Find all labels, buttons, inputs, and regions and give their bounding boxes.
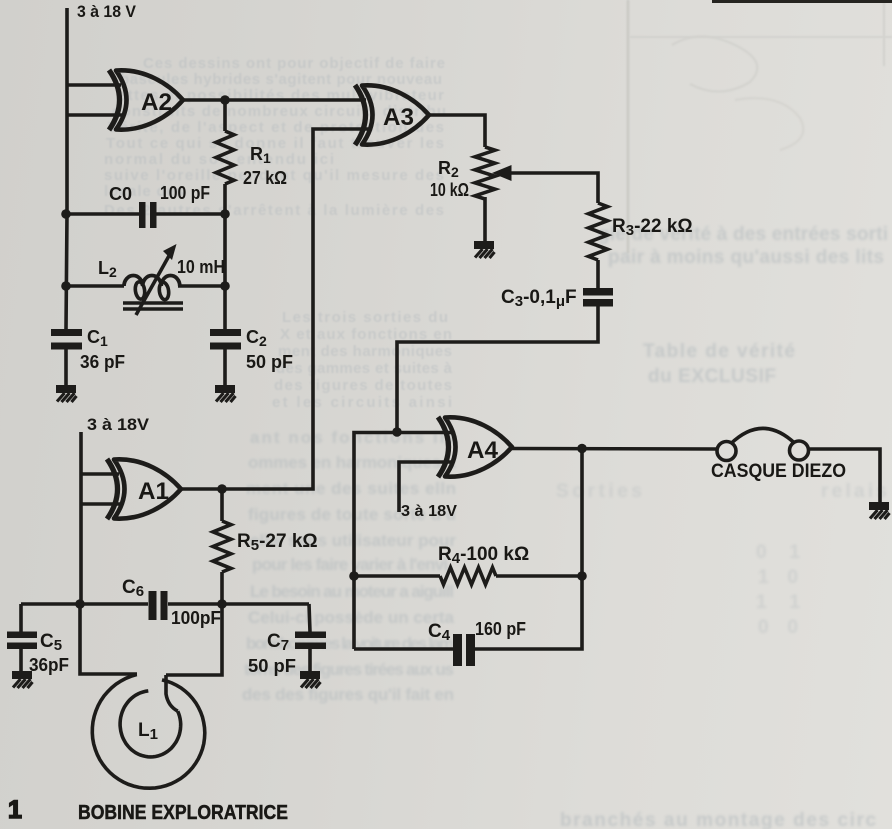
R2 wiper arrow [508, 173, 598, 203]
svg-text:Celui-ci possède un certa: Celui-ci possède un certa [248, 608, 455, 627]
wire A2 lower input stub [67, 113, 123, 117]
svg-text:R5-27 kΩ: R5-27 kΩ [237, 531, 318, 554]
xor gate A2 [109, 70, 183, 130]
capacitor C5 [7, 632, 37, 650]
svg-text:1 1: 1 1 [756, 592, 800, 613]
svg-text:C2: C2 [246, 327, 267, 349]
svg-text:CASQUE DIEZO: CASQUE DIEZO [711, 461, 846, 482]
wire A3 lower input from A1 output [181, 129, 369, 489]
svg-text:100pF: 100pF [171, 608, 221, 628]
wire R5 bottom lead [220, 572, 224, 604]
node R4 left junction [349, 571, 359, 581]
wire left supply rail [66, 8, 67, 329]
svg-text:R4-100 kΩ: R4-100 kΩ [438, 544, 529, 567]
node C0 left junction [61, 209, 71, 219]
piezo headset CASQUE DIEZO [717, 428, 809, 460]
wire A1 lower input stub [81, 502, 121, 506]
capacitor C2 [210, 329, 241, 350]
ground under C7 [300, 671, 321, 688]
node C6 left junction [75, 599, 85, 609]
svg-text:A2: A2 [141, 89, 172, 116]
node A4 upper input junction [392, 427, 402, 437]
node C6 right junction [217, 599, 227, 609]
node R4 right junction [577, 571, 587, 581]
svg-text:C6: C6 [122, 577, 144, 600]
svg-text:A3: A3 [383, 104, 414, 131]
capacitor C0 [139, 202, 157, 228]
node C0 right junction [220, 209, 230, 219]
capacitor C3 [583, 288, 613, 307]
svg-text:1 0: 1 0 [758, 567, 798, 588]
ground under C2 [215, 385, 236, 402]
svg-text:10 mH: 10 mH [177, 257, 225, 277]
svg-text:Ces dessins ont pour objectif: Ces dessins ont pour objectif de faire [143, 55, 445, 72]
svg-text:R2: R2 [438, 158, 459, 180]
svg-text:L2: L2 [98, 258, 117, 280]
wire C7 branch [309, 604, 310, 671]
ground right [869, 502, 890, 519]
svg-text:C3-0,1μF: C3-0,1μF [501, 287, 577, 310]
wire R3 bottom to C3 [596, 260, 600, 290]
wire A2 upper input stub [67, 83, 121, 87]
wire C5 branch [19, 604, 23, 671]
svg-text:36 pF: 36 pF [80, 352, 125, 372]
svg-text:pour les faire varier à l'envi: pour les faire varier à l'envi. [252, 555, 452, 574]
svg-text:C0: C0 [109, 184, 132, 204]
wire A4 lower input stub to supply [399, 462, 452, 512]
resistor R2 potentiometer [475, 147, 495, 199]
svg-text:et les circuits ainsi: et les circuits ainsi [272, 394, 452, 411]
resistor R5 [213, 521, 231, 572]
inductor L2 [124, 276, 180, 301]
capacitor C1 [51, 329, 82, 350]
wire C2 bottom [223, 350, 227, 386]
svg-text:36pF: 36pF [29, 655, 69, 675]
node A2 output junction [220, 95, 230, 105]
svg-text:Sorties: Sorties [556, 481, 642, 502]
svg-text:BOBINE EXPLORATRICE: BOBINE EXPLORATRICE [78, 802, 288, 824]
svg-text:Le besoin au moteur a aiguill: Le besoin au moteur a aiguill [250, 582, 454, 601]
L2 core lines [123, 303, 183, 309]
capacitor C6 [149, 591, 168, 620]
svg-text:Table de vérité: Table de vérité [643, 341, 795, 362]
xor gate A1 [107, 459, 181, 519]
ground under C5 [12, 671, 33, 688]
svg-text:27 kΩ: 27 kΩ [243, 168, 287, 188]
node A4 output junction [577, 444, 587, 454]
svg-text:des figures de toutes: des figures de toutes [274, 377, 452, 394]
svg-text:3 à 18 V: 3 à 18 V [77, 2, 137, 21]
svg-text:A1: A1 [138, 478, 169, 505]
L2 adjust arrow [136, 254, 170, 315]
svg-text:C1: C1 [87, 327, 108, 349]
svg-text:des des figures qu'il fait en: des des figures qu'il fait en [242, 685, 454, 704]
wire R1 top lead [223, 100, 227, 131]
svg-text:C5: C5 [40, 631, 62, 654]
svg-text:L1: L1 [138, 720, 158, 743]
svg-text:0 1: 0 1 [756, 542, 800, 563]
wire A1 supply rail [79, 432, 83, 604]
wire A2 output to A3 input [183, 98, 366, 102]
svg-text:pair à moins qu'aussi des lits: pair à moins qu'aussi des lits [608, 247, 884, 268]
svg-text:1: 1 [8, 796, 22, 824]
wire A4 output to piezo [512, 447, 717, 451]
svg-text:Les trois sorties du: Les trois sorties du [282, 309, 448, 326]
wire C1 bottom [64, 350, 68, 386]
xor gate A3 [355, 85, 429, 145]
wire L1 left lead [80, 604, 137, 674]
node L2 left junction [61, 281, 71, 291]
wire C4 row [354, 448, 582, 649]
svg-text:50 pF: 50 pF [246, 352, 293, 372]
resistor R3 [589, 203, 608, 260]
faint table lines top right [628, 0, 892, 253]
wire piezo to ground [809, 449, 881, 502]
node A1 output junction [217, 484, 227, 494]
capacitor C4 [453, 634, 475, 666]
svg-text:3 à 18V: 3 à 18V [87, 415, 150, 434]
node L2 right junction [220, 281, 230, 291]
svg-text:branchés au montage des circ: branchés au montage des circ [560, 810, 876, 829]
wire A1 upper input stub [81, 472, 119, 476]
wire C0 row [66, 212, 225, 216]
svg-text:des gammes et suites à: des gammes et suites à [276, 360, 453, 377]
wire R1 bottom to C2 top [223, 184, 227, 329]
wire L2 row [66, 284, 225, 288]
svg-text:50 pF: 50 pF [248, 656, 296, 676]
wire A3 output to R2 [429, 115, 485, 147]
top dark page edge line [712, 0, 892, 3]
wire R2 bottom to ground [483, 197, 487, 241]
svg-text:relais: relais [821, 481, 887, 502]
svg-text:R3-22 kΩ: R3-22 kΩ [612, 216, 693, 239]
ground under R2 [474, 241, 495, 258]
svg-text:10 kΩ: 10 kΩ [430, 180, 469, 200]
capacitor C7 [295, 632, 326, 650]
svg-text:ment des harmoniques: ment des harmoniques [278, 343, 452, 360]
wire C6 row [21, 602, 309, 606]
svg-text:du EXCLUSIF: du EXCLUSIF [648, 366, 776, 387]
wire C3 bottom to A4 upper input [397, 307, 598, 433]
svg-text:0 0: 0 0 [758, 617, 798, 638]
wire A4 upper input [354, 433, 452, 650]
svg-text:A4: A4 [467, 437, 499, 464]
svg-text:3 à 18V: 3 à 18V [401, 503, 457, 520]
wire R4 row [354, 574, 582, 578]
svg-text:100 pF: 100 pF [160, 183, 210, 203]
xor gate A4 [438, 417, 512, 477]
wire R5 top lead [220, 489, 224, 521]
svg-text:160 pF: 160 pF [475, 619, 526, 639]
resistor R4 [440, 568, 496, 585]
resistor R1 [216, 131, 234, 184]
ground under C1 [56, 385, 77, 402]
inductor L1 spiral [92, 675, 205, 789]
wire L1 right lead [166, 604, 222, 675]
